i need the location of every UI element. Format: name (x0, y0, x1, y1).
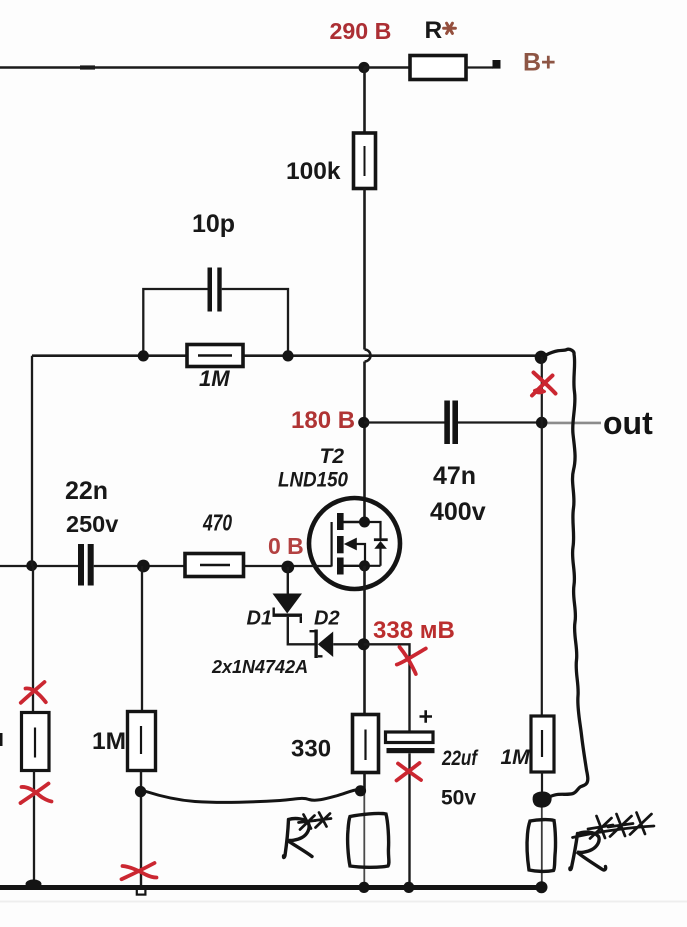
terminal: open square on rail (137, 888, 146, 895)
transistor T2: body diode (365, 522, 388, 566)
resistor left (crossed out) (22, 713, 50, 771)
node: dot at left riser of 10p (138, 350, 149, 361)
wire: D2 to source column (333, 643, 361, 645)
wire: source column down (363, 566, 366, 715)
annotation: handwritten R** (284, 813, 331, 858)
annotation: hand box right (R***) (527, 820, 555, 872)
svg-text:470: 470 (202, 510, 232, 536)
diode D2 (zener) (310, 630, 334, 659)
svg-text:D2: D2 (314, 608, 340, 630)
annotation: hand squiggle right column (546, 349, 588, 798)
transistor T2: channel segments (337, 513, 344, 575)
wire: 290V node down to 100k (363, 68, 366, 134)
label: edge tick (0, 733, 3, 746)
svg-text:10p: 10p (192, 210, 235, 238)
wire: left riser (feedback rail down to input) (31, 356, 33, 566)
svg-text:B+: B+ (523, 49, 556, 77)
node: dot at wavy wire end (355, 785, 366, 796)
svg-text:LND150: LND150 (278, 469, 348, 492)
node: rail dot right end (536, 881, 548, 893)
lead: gray out stub (548, 422, 602, 425)
wire: hop down to drain of T2 (363, 362, 366, 518)
wire: middle 1M to rail (140, 771, 142, 887)
wire hop: vertical line jumps the horizontal feedback wire (365, 350, 371, 362)
annotation: red X top right (532, 373, 556, 396)
svg-text:100k: 100k (286, 158, 341, 185)
resistor 470 (185, 554, 244, 577)
wire: right column (out node to 1M bottom) (541, 357, 543, 716)
annotation: hand box left (R**) (348, 813, 389, 867)
svg-text:D1: D1 (247, 608, 273, 630)
wire: gate node down to D1 (287, 567, 289, 594)
wire: R* to B+ terminal (466, 66, 493, 68)
annotation: red X left resistor top (21, 682, 46, 703)
resistor 1M (feedback) (187, 345, 243, 367)
svg-text:2x1N4742A: 2x1N4742A (211, 657, 308, 677)
svg-text:out: out (603, 405, 653, 441)
transistor T2: gate bar (331, 522, 333, 567)
svg-text:250v: 250v (66, 511, 118, 537)
svg-text:22uf: 22uf (441, 747, 478, 770)
capacitor 10p branch: right riser wire (222, 289, 288, 356)
svg-text:400v: 400v (430, 498, 486, 526)
node: dot input/left riser junction (26, 560, 37, 571)
wire: thin through right hand box to rail (541, 796, 543, 885)
annotation: hand wavy wire middle-bottom (146, 790, 358, 803)
label: * (red asterisk of R*) (444, 23, 456, 33)
wire: thin segment through hand box to rail (363, 791, 365, 885)
wire: branch to 22uf (364, 644, 410, 732)
bottom ground rail (0, 885, 544, 890)
node: dot feedback rail right end (535, 351, 548, 364)
svg-text:22n: 22n (65, 477, 108, 505)
node: dot below middle 1M (135, 786, 146, 797)
wire: drain node to 47n (364, 421, 445, 423)
resistor 100k (354, 133, 376, 189)
svg-text:1M: 1M (199, 366, 230, 391)
node: dot at right riser of 10p (282, 350, 293, 361)
node: dot 22n/1M riser junction (137, 560, 150, 573)
transistor T2: body arrow (344, 538, 365, 566)
svg-text:47n: 47n (433, 462, 476, 490)
capacitor 22uf: plus sign (420, 710, 433, 722)
node: dot 180V at drain column (358, 417, 369, 428)
wire: input from left edge (0, 565, 78, 567)
svg-text:0 В: 0 В (268, 533, 304, 559)
diode D1 (zener) (273, 594, 303, 624)
wire: left resistor to rail (33, 771, 35, 887)
capacitor 10p (208, 268, 222, 312)
wire: 100k down to hop (363, 189, 366, 350)
svg-text:R: R (425, 17, 443, 44)
node: rail dot at 330 (358, 882, 369, 893)
node: 290V junction dot (358, 62, 369, 73)
capacitor 47n (444, 401, 458, 445)
resistor 1M (middle) (128, 712, 156, 771)
wire: D1 to D2 (288, 617, 315, 644)
node: dot gate/D1 junction (281, 561, 294, 574)
resistor 1M (right) (531, 716, 554, 772)
svg-text:330: 330 (291, 736, 331, 763)
svg-text:180 В: 180 В (291, 407, 355, 434)
node: blob on rail left (26, 879, 42, 888)
wire: right 1M to blob (541, 772, 543, 796)
node: rail dot at 22uf (403, 882, 414, 893)
wire: thick dash on top rail (80, 65, 95, 69)
node: hand blob below right 1M (534, 793, 551, 807)
annotation: red X left resistor bottom (21, 784, 52, 804)
wire: 47n to out node (458, 421, 542, 423)
wire: 22uf bottom to rail (408, 753, 410, 885)
transistor T2: source link and dot (344, 560, 371, 571)
wire: feedback rail (mid horizontal) (32, 354, 536, 357)
terminal square: B+ (493, 60, 501, 69)
svg-text:50v: 50v (441, 787, 476, 810)
wire: top supply rail to 290V node (0, 66, 364, 69)
capacitor 10p branch: left riser wire (143, 289, 207, 356)
svg-text:1M: 1M (92, 728, 126, 755)
wire: middle column down (141, 566, 143, 712)
node: out junction dot (536, 417, 548, 429)
transistor T2: drain link and dot (344, 517, 371, 528)
svg-text:T2: T2 (320, 445, 345, 468)
resistor 330 (353, 715, 379, 773)
capacitor 22n (78, 544, 94, 586)
node: 338mV junction dot (358, 638, 370, 650)
svg-text:290 В: 290 В (330, 18, 392, 44)
wire: left column down to bottom resistor (32, 566, 34, 713)
wire: 330 bottom to rail (363, 773, 366, 792)
resistor R* (410, 56, 466, 80)
svg-text:1M: 1M (501, 746, 531, 769)
wire: 22n to gate of T2 (94, 565, 332, 567)
capacitor 22uf (386, 732, 435, 753)
transistor T2 LND150: body circle (309, 498, 400, 589)
annotation: handwritten R*** (570, 813, 654, 870)
annotation: red X middle 1M bottom (122, 863, 157, 879)
annotation: red X at 338mV branch (397, 647, 426, 674)
svg-text:338 мВ: 338 мВ (373, 617, 455, 644)
faint scan streak below rail (0, 901, 687, 903)
wire: 290V node to resistor R* (364, 66, 410, 69)
annotation: red X below 22uf (397, 763, 422, 781)
